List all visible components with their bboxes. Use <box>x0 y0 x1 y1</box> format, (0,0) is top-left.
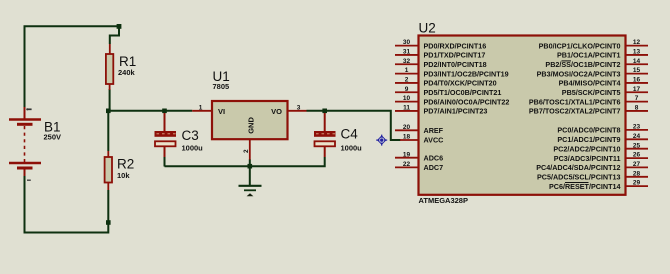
svg-text:10k: 10k <box>117 171 130 180</box>
svg-text:PB1/OC1A/PCINT1: PB1/OC1A/PCINT1 <box>557 51 621 60</box>
svg-text:PC6/RESET/PCINT14: PC6/RESET/PCINT14 <box>549 182 621 191</box>
svg-text:22: 22 <box>403 161 411 168</box>
svg-text:18: 18 <box>403 134 411 141</box>
regulator U1 7805 <box>212 101 288 139</box>
svg-text:GND: GND <box>246 117 255 134</box>
wire R1 bottom to main rail <box>109 89 111 111</box>
svg-text:ADC6: ADC6 <box>424 153 444 162</box>
node junction R1 R2 rail <box>106 109 111 114</box>
capacitor C3 <box>155 113 177 167</box>
svg-text:15: 15 <box>633 67 641 74</box>
svg-text:PD2/INT0/PCINT18: PD2/INT0/PCINT18 <box>424 60 487 69</box>
svg-text:R1: R1 <box>119 54 136 69</box>
node R1 top terminal <box>117 24 122 29</box>
U2 right pin labels <box>529 41 621 191</box>
svg-text:PC1/ADC1/PCINT9: PC1/ADC1/PCINT9 <box>557 135 620 144</box>
svg-text:27: 27 <box>633 161 641 168</box>
svg-text:7805: 7805 <box>213 82 230 91</box>
wire main rail to U1 VI <box>108 110 192 112</box>
U1 pin 1 stub <box>192 110 212 112</box>
svg-text:PB7/TOSC2/XTAL2/PCINT7: PB7/TOSC2/XTAL2/PCINT7 <box>529 107 621 116</box>
svg-text:32: 32 <box>403 58 411 65</box>
svg-text:12: 12 <box>633 39 641 46</box>
svg-text:PB6/TOSC1/XTAL1/PCINT6: PB6/TOSC1/XTAL1/PCINT6 <box>529 97 621 106</box>
wire battery bottom to R2 bottom <box>25 176 109 233</box>
wire battery top to R1 top <box>25 26 120 107</box>
svg-text:PD1/TXD/PCINT17: PD1/TXD/PCINT17 <box>424 51 486 60</box>
svg-text:29: 29 <box>633 180 641 187</box>
svg-text:24: 24 <box>633 133 641 140</box>
wire R1 top jog <box>110 27 119 44</box>
svg-text:U2: U2 <box>419 21 436 36</box>
capacitor C4 <box>314 113 336 157</box>
svg-text:7: 7 <box>635 95 639 102</box>
svg-text:PC2/ADC2/PCINT10: PC2/ADC2/PCINT10 <box>553 144 620 153</box>
resistor R2 <box>105 151 112 190</box>
overline RESET on PC6 <box>565 182 589 184</box>
U2 left pin stubs <box>395 46 419 168</box>
svg-text:VI: VI <box>218 107 225 116</box>
svg-text:31: 31 <box>403 49 411 56</box>
svg-text:C3: C3 <box>182 128 199 143</box>
node on bottom wire <box>106 220 111 225</box>
svg-text:PC4/ADC4/SDA/PCINT12: PC4/ADC4/SDA/PCINT12 <box>536 163 620 172</box>
U2 right pin stubs <box>627 46 649 187</box>
svg-text:23: 23 <box>633 124 641 131</box>
svg-text:PC5/ADC5/SCL/PCINT13: PC5/ADC5/SCL/PCINT13 <box>537 173 620 182</box>
ground <box>239 160 262 197</box>
svg-text:28: 28 <box>633 170 641 177</box>
resistor R1 <box>106 44 113 90</box>
svg-text:1: 1 <box>199 104 203 111</box>
node junction ground rail <box>248 164 253 169</box>
svg-text:2: 2 <box>243 149 250 153</box>
svg-text:PB3/MOSI/OC2A/PCINT3: PB3/MOSI/OC2A/PCINT3 <box>537 69 621 78</box>
svg-text:ATMEGA328P: ATMEGA328P <box>419 196 468 205</box>
svg-text:PB0/ICP1/CLKO/PCINT0: PB0/ICP1/CLKO/PCINT0 <box>539 41 621 50</box>
wire R2 top to main rail <box>107 111 109 151</box>
node junction C4 rail <box>322 109 327 114</box>
svg-text:19: 19 <box>403 151 411 158</box>
svg-text:PD6/AIN0/OC0A/PCINT22: PD6/AIN0/OC0A/PCINT22 <box>424 97 510 106</box>
svg-text:250V: 250V <box>44 133 62 142</box>
svg-text:26: 26 <box>633 152 641 159</box>
U2 right pin numbers <box>633 39 641 187</box>
svg-text:8: 8 <box>635 105 639 112</box>
svg-text:ADC7: ADC7 <box>424 163 444 172</box>
svg-text:PC3/ADC3/PCINT11: PC3/ADC3/PCINT11 <box>554 154 621 163</box>
svg-text:1000u: 1000u <box>341 144 363 153</box>
svg-text:9: 9 <box>405 86 409 93</box>
svg-text:240k: 240k <box>118 68 136 77</box>
svg-text:PD0/RXD/PCINT16: PD0/RXD/PCINT16 <box>424 41 487 50</box>
wire U1 VO to AVCC <box>307 111 401 140</box>
battery B1 <box>9 107 41 180</box>
svg-text:2: 2 <box>405 77 409 84</box>
svg-text:1: 1 <box>405 67 409 74</box>
svg-text:VO: VO <box>271 107 282 116</box>
svg-text:10: 10 <box>403 95 411 102</box>
U1 pin 3 stub <box>288 110 307 112</box>
svg-text:PD5/T1/OC0B/PCINT21: PD5/T1/OC0B/PCINT21 <box>424 88 502 97</box>
svg-text:PC0/ADC0/PCINT8: PC0/ADC0/PCINT8 <box>557 126 620 135</box>
svg-text:20: 20 <box>403 124 411 131</box>
svg-text:11: 11 <box>403 105 410 112</box>
svg-text:3: 3 <box>297 104 301 111</box>
overline SS on PB2 <box>562 60 572 62</box>
svg-text:R2: R2 <box>117 157 134 172</box>
svg-text:PD7/AIN1/PCINT23: PD7/AIN1/PCINT23 <box>424 107 488 116</box>
node junction C3 rail <box>162 109 167 114</box>
svg-text:PD4/T0/XCK/PCINT20: PD4/T0/XCK/PCINT20 <box>424 79 497 88</box>
U2 left pin labels <box>424 41 510 172</box>
svg-text:PB2/SS/OC1B/PCINT2: PB2/SS/OC1B/PCINT2 <box>545 60 620 69</box>
svg-text:17: 17 <box>633 86 641 93</box>
svg-text:AREF: AREF <box>424 126 444 135</box>
svg-text:13: 13 <box>633 49 641 56</box>
svg-text:30: 30 <box>403 39 411 46</box>
svg-text:PB5/SCK/PCINT5: PB5/SCK/PCINT5 <box>562 88 621 97</box>
svg-text:25: 25 <box>633 142 641 149</box>
U2 left pin numbers <box>403 39 411 168</box>
svg-text:14: 14 <box>633 58 641 65</box>
svg-text:C4: C4 <box>341 127 359 142</box>
origin marker <box>376 135 387 146</box>
ground rail wire <box>165 157 325 166</box>
svg-text:1000u: 1000u <box>182 144 204 153</box>
svg-text:AVCC: AVCC <box>424 136 444 145</box>
svg-text:PB4/MISO/PCINT4: PB4/MISO/PCINT4 <box>559 79 621 88</box>
IC U2 ATMEGA328P body <box>419 36 626 195</box>
svg-text:16: 16 <box>633 77 641 84</box>
U1 pin 2 GND stub <box>249 139 251 160</box>
svg-text:PD3/INT1/OC2B/PCINT19: PD3/INT1/OC2B/PCINT19 <box>424 69 509 78</box>
